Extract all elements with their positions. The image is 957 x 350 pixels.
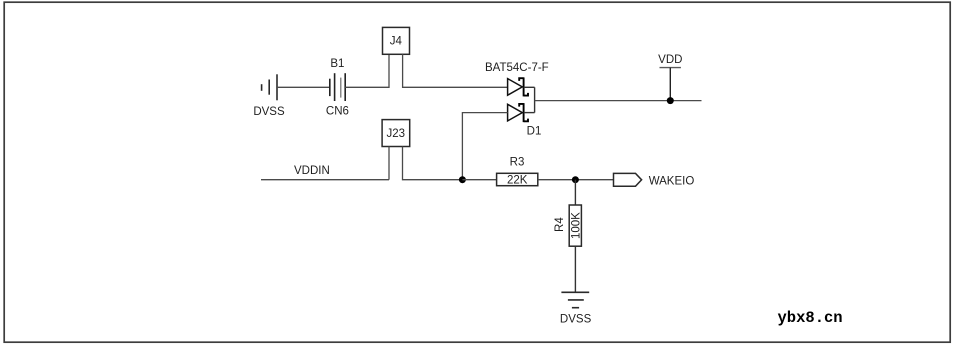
wire J23 pin2 to node [403,147,463,180]
wire DVSS to battery B1 [277,86,330,88]
wire R4 to ground [574,246,576,292]
junction node WAKEIO [572,176,579,183]
svg-text:ybx8.cn: ybx8.cn [778,309,843,327]
power symbol VDD [660,68,681,101]
power symbol DVSS (left) [262,74,277,100]
svg-text:100K: 100K [570,212,582,239]
diode D1 bottom half (schottky) [508,103,528,122]
diode D1 top half (schottky) [508,77,528,96]
wire J4 pin2 to diode D1 anode (top) [403,54,508,87]
svg-text:J4: J4 [390,36,403,48]
svg-text:VDDIN: VDDIN [294,165,330,177]
svg-text:B1: B1 [330,58,344,70]
wire R3 to WAKEIO [538,179,614,181]
wire J23 pin1 [388,147,390,180]
wire battery to J4 pin1 [345,54,389,87]
svg-text:D1: D1 [527,126,542,138]
common cathode wiring of D1 [524,87,535,112]
svg-text:DVSS: DVSS [560,313,592,325]
svg-text:DVSS: DVSS [253,106,285,118]
resistor R3 [497,173,538,185]
wire D1 cathode to VDD net [535,100,702,102]
svg-text:J23: J23 [387,128,406,140]
junction node VDDIN [459,176,466,183]
wire node to R4 [574,180,576,205]
junction VDD [667,97,674,104]
svg-text:BAT54C-7-F: BAT54C-7-F [485,62,549,74]
svg-text:R3: R3 [510,156,525,168]
wire VDDIN [261,179,389,181]
wire node to R3 [462,179,496,181]
svg-text:CN6: CN6 [326,106,349,118]
port flag WAKEIO [614,173,642,186]
svg-text:R4: R4 [554,217,566,232]
svg-text:WAKEIO: WAKEIO [649,176,695,188]
connector J23 [382,120,410,147]
ground DVSS (bottom) [561,292,589,307]
wire node to D1 bottom anode [462,113,507,180]
connector J4 [383,27,410,54]
svg-text:VDD: VDD [658,54,682,66]
battery B1 / CN6 [330,73,345,101]
resistor R4 [569,205,581,246]
svg-text:22K: 22K [507,175,528,187]
